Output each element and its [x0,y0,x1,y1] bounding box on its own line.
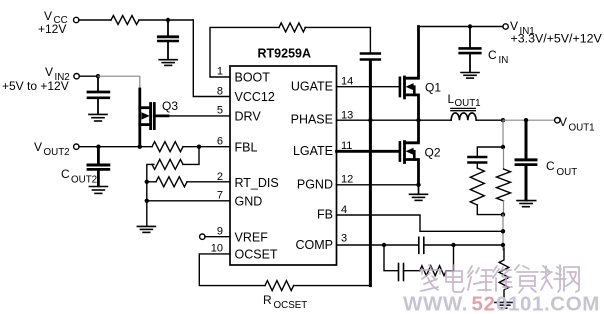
label LOUT1 [448,92,481,109]
pin 13 PHASE [291,110,354,127]
wire PGND down [418,185,420,195]
pin 12 PGND [297,173,353,191]
pin 14 UGATE [291,75,353,93]
pin 6 FBL [217,136,258,155]
pin 1 BOOT [217,66,270,85]
svg-text:OCSET: OCSET [274,300,308,311]
svg-text:+5V to +12V: +5V to +12V [2,79,69,93]
capacitor COMP series [419,237,424,253]
pin 4 FB [317,204,347,222]
resistor divider upper [152,159,183,169]
svg-text:+3.3V/+5V/+12V: +3.3V/+5V/+12V [511,32,603,46]
pin 9 VREF [217,226,268,245]
svg-text:5: 5 [217,105,223,117]
wire BOOT pin loop [210,27,279,77]
watermark chinese text [420,265,579,293]
svg-text:Q1: Q1 [425,81,441,95]
svg-text:4: 4 [341,204,347,216]
label RT9259A [258,47,312,61]
node VIN2 junction [96,74,100,78]
node output junction [501,118,505,122]
capacitor COUT [516,120,536,200]
svg-text:8: 8 [217,85,223,97]
capacitor boot [361,54,380,60]
node VIN1 terminal [503,24,508,29]
wire VIN1 row [419,26,503,28]
svg-text:V: V [45,65,53,79]
label VCC [38,9,68,36]
label VIN1 [510,19,603,46]
label VOUT2 [34,140,70,158]
node VCC terminal [74,17,79,22]
wire FBL resistor to pin 6 [183,146,229,148]
resistor on VCC line [111,16,139,25]
resistor compensation lower [420,266,447,276]
svg-text:Q2: Q2 [425,146,441,160]
wire UGATE to Q1 gate [337,86,399,88]
label Q2 [425,146,441,160]
pin 8 VCC12 [217,85,275,104]
node VOUT2 junction [96,145,100,149]
ground below COUT [517,201,536,207]
node FB junction [501,229,505,233]
resistor feedforward series [470,168,484,205]
node GND junction [145,199,149,203]
wire GND pin 7 [147,200,229,202]
wire RT_DIS resistor to pin 2 [147,181,229,183]
svg-text:OCSET: OCSET [235,248,278,262]
svg-text:PHASE: PHASE [291,113,333,127]
svg-text:V: V [44,9,52,23]
svg-text:C: C [546,159,555,173]
wire cap to resistor [404,270,420,272]
wire DRV to Q3 gate [168,115,229,117]
svg-text:VCC12: VCC12 [235,90,275,104]
wire COMP row left [337,244,418,246]
wire VREF [205,236,229,238]
wire divider mid down (gray) [502,215,504,250]
ground below VCC cap [159,60,177,66]
wire compensation lower branch left [384,245,398,271]
svg-text:OUT1: OUT1 [455,98,481,109]
svg-text:OUT1: OUT1 [569,123,595,134]
node PGND junction [416,183,420,187]
svg-text:52: 52 [472,293,496,314]
resistor RT_DIS [156,177,187,187]
ground main left [137,226,155,232]
svg-text:DRV: DRV [235,110,262,124]
node divider mid junction [501,212,505,216]
svg-text:RT9259A: RT9259A [258,47,312,61]
node VOUT1 terminal [555,118,560,123]
svg-text:0101.COM: 0101.COM [496,293,600,314]
svg-text:PGND: PGND [297,178,333,192]
transistor Q2 [400,120,419,185]
transistor Q1 [400,27,419,121]
wire to feedforward cap [477,147,503,156]
wire feedforward bottom [477,205,503,215]
pin 7 GND [217,190,262,209]
wire VCC to resistor [79,19,111,21]
svg-text:9: 9 [217,226,223,238]
wire resistor to VCC node [139,19,193,21]
node VCC filter junction [166,18,170,22]
pin 10 OCSET [211,243,278,262]
node VIN2 terminal [74,74,79,79]
pin 2 RT_DIS [217,171,279,190]
transistor Q3 [140,89,168,147]
wire VIN2 to Q3 drain [98,76,140,89]
label COUT2 [61,167,97,186]
wire LGATE thick [337,150,399,153]
capacitor VCC decoupling [158,20,177,59]
node phase at Q2 [416,118,420,122]
wire PGND to ground [337,184,419,186]
ground below COUT2 [89,187,107,194]
label COUT [546,159,577,178]
node VOUT2 terminal [74,144,79,149]
svg-text:GND: GND [235,195,263,209]
svg-text:L: L [448,92,455,106]
ground below CIN [461,73,479,79]
svg-text:Q3: Q3 [162,99,178,113]
wire FB elbow [337,215,504,231]
svg-text:RT_DIS: RT_DIS [235,176,279,190]
ground PGND [410,194,428,200]
capacitor COUT2 [88,147,109,186]
node FBL junction [197,145,201,149]
resistor divider upper right [503,149,505,169]
svg-text:OUT2: OUT2 [44,147,70,158]
pin 5 DRV [217,105,261,124]
node COUT junction [524,118,528,122]
capacitor CIN [460,27,481,72]
svg-text:10: 10 [211,243,223,255]
inductor LOUT1 [451,108,476,120]
watermark www.520101.com [403,293,600,314]
wire VIN2 to junction [79,75,98,77]
capacitor VIN2 filter [88,76,109,113]
wire output to terminal [503,119,555,121]
svg-text:1: 1 [217,66,223,78]
wire phase to inductor [419,119,452,121]
wire VCC node down to VCC12 pin 8 [193,20,229,97]
resistor FBL [152,142,183,152]
wire to RT_DIS branch [147,164,154,225]
wire resistor up to COMP node [446,245,453,271]
svg-text:6: 6 [217,136,223,148]
resistor boot [279,23,306,32]
svg-text:UGATE: UGATE [291,79,333,93]
svg-text:FB: FB [317,208,333,222]
svg-text:FBL: FBL [235,140,258,154]
capacitor compensation lower [399,264,404,281]
wire OCSET to bottom [199,254,265,286]
svg-text:7: 7 [217,190,223,202]
svg-text:IN: IN [499,55,509,66]
svg-text:OUT2: OUT2 [71,175,97,186]
wire inductor to output node [476,119,503,121]
wire phase/ocset bus (thick vertical) [369,61,372,286]
svg-text:LGATE: LGATE [293,144,333,158]
wire divider top (gray) [502,120,504,147]
wire COMP cap to FB node [425,244,503,246]
svg-text:12: 12 [341,173,353,185]
node COMP right junction [451,243,455,247]
svg-text:R: R [263,293,272,307]
pin 3 COMP [296,233,348,252]
svg-text:C: C [61,167,70,181]
node Q3 source junction [138,145,142,149]
wire PHASE pin to Q2 drain [337,119,419,121]
svg-text:OUT: OUT [557,167,578,178]
pin 11 LGATE [293,140,352,158]
op-amp U1 RT9259A box [230,66,337,265]
svg-text:3: 3 [341,233,347,245]
svg-text:COMP: COMP [296,238,334,252]
label Q3 [162,99,178,113]
node COMP left junction [382,243,386,247]
ground divider bottom [495,302,513,308]
svg-text:VREF: VREF [235,230,269,244]
wire VOUT2 row [79,146,152,148]
label VIN2 [2,65,70,93]
label CIN [488,48,508,66]
node VREF terminal [200,234,205,239]
svg-text:C: C [488,48,497,62]
node COMP junction [501,243,505,247]
label ROCSET [263,293,307,311]
label VOUT1 [559,115,595,134]
node phase junction on bus [368,118,372,122]
resistor divider lower [499,248,509,302]
svg-text:BOOT: BOOT [235,70,271,84]
node divider top junction [501,145,505,149]
svg-text:V: V [559,115,567,129]
wire FBL node down [183,147,199,165]
wire ROCSET to phase bus [294,285,371,287]
svg-text:WWW.: WWW. [403,293,468,314]
svg-text:14: 14 [341,75,353,87]
node CIN junction [468,24,472,28]
wire boot resistor to boot cap [305,27,370,52]
label Q1 [425,81,441,95]
node RT_DIS junction [145,180,149,184]
ground below VIN2 cap [89,114,107,121]
svg-text:+12V: +12V [38,22,66,36]
resistor ROCSET [265,281,294,291]
svg-text:V: V [34,140,42,154]
capacitor feedforward [468,157,486,168]
